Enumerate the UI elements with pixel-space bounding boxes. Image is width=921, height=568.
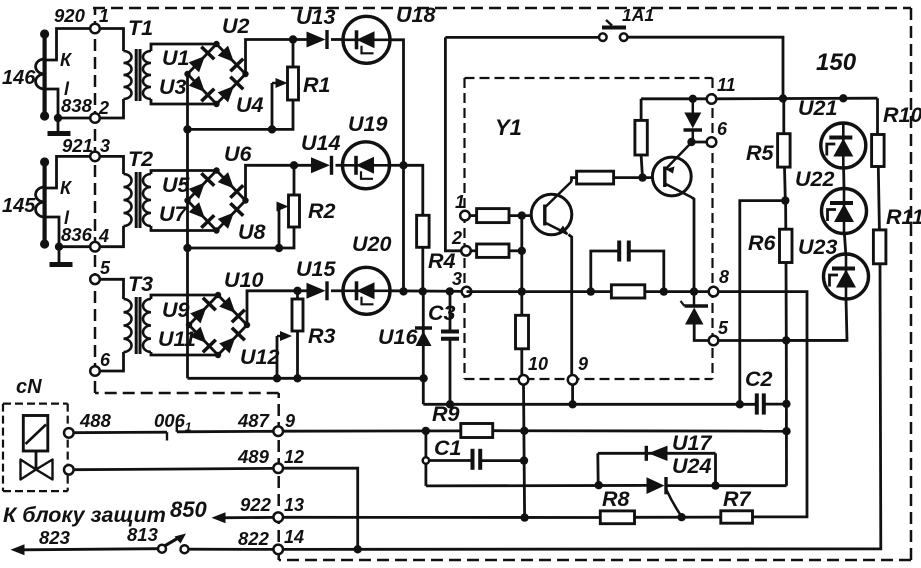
svg-text:R6: R6 xyxy=(748,231,777,255)
wire input resistor 2 right xyxy=(509,249,522,252)
label U20 xyxy=(352,232,391,256)
svg-text:145: 145 xyxy=(2,195,36,217)
label U14 xyxy=(301,131,340,155)
svg-text:6: 6 xyxy=(717,119,728,139)
label pin 3 xyxy=(100,136,110,156)
svg-text:C2: C2 xyxy=(745,367,773,391)
wire U18 output down xyxy=(390,40,404,166)
svg-text:488: 488 xyxy=(79,410,112,431)
label U17 xyxy=(672,431,712,455)
label pin 5 xyxy=(100,258,111,278)
label 822 xyxy=(238,528,270,549)
label U12 xyxy=(240,345,279,369)
coupling resistor xyxy=(577,171,614,184)
wire top-right rail xyxy=(716,97,878,100)
label 146 xyxy=(2,67,36,89)
label l (CT 146 tap) xyxy=(64,79,70,99)
solenoid coil (cN) xyxy=(23,416,48,452)
svg-text:6: 6 xyxy=(100,350,111,370)
svg-text:U18: U18 xyxy=(396,3,435,27)
label U11 xyxy=(158,327,196,351)
label 813 xyxy=(127,524,159,545)
diode U16 xyxy=(415,328,432,346)
wire R11 bottom to bus xyxy=(283,264,881,550)
transistor Q1 xyxy=(531,182,572,235)
label 489 xyxy=(237,446,270,467)
wire R8 to gate node xyxy=(635,516,721,519)
svg-text:К: К xyxy=(60,50,73,70)
wire terminal5 to T3 primary xyxy=(99,279,124,299)
svg-text:К: К xyxy=(60,178,73,198)
cN terminal lower xyxy=(64,465,74,475)
svg-text:5: 5 xyxy=(100,258,111,278)
Y1 pin 11 xyxy=(707,94,717,104)
svg-text:8: 8 xyxy=(719,267,729,287)
label 488 xyxy=(79,410,112,431)
label Y1 pin 6 xyxy=(717,119,728,139)
label 850 xyxy=(170,497,207,522)
wire T2 primary to terminal 4 xyxy=(99,226,124,247)
wire 488 segment xyxy=(73,431,167,434)
transformer T2 xyxy=(124,172,152,228)
wire bridge2 plus up xyxy=(246,165,295,200)
Y1 pin 1 xyxy=(460,211,470,221)
wire bias resistor to pin 10 xyxy=(520,349,523,377)
svg-text:489: 489 xyxy=(237,446,270,467)
thyristor U23 xyxy=(824,254,869,299)
label U10 xyxy=(224,268,263,292)
svg-text:U6: U6 xyxy=(224,142,253,166)
junction Q2 collector row xyxy=(690,287,698,295)
svg-text:4: 4 xyxy=(98,226,109,246)
svg-text:822: 822 xyxy=(238,528,270,549)
label T2 xyxy=(128,147,153,171)
wire Q1 collector to coupling resistor xyxy=(572,178,577,182)
junction R1 wiper bus xyxy=(268,125,276,133)
wire T3 secondary bottom to bridge3 bottom xyxy=(151,352,218,355)
diode bridge U1 U2 U3 U4 xyxy=(184,41,248,107)
svg-text:T1: T1 xyxy=(128,16,153,40)
opto-thyristor U18 xyxy=(343,16,390,63)
wire load resistor top xyxy=(640,99,643,121)
wire node to R4 xyxy=(404,165,423,215)
current transformer 146 xyxy=(36,29,50,120)
label Y1 pin 11 xyxy=(717,75,736,95)
R2 wiper arrow xyxy=(277,202,289,212)
svg-text:838: 838 xyxy=(61,95,93,116)
wire C1 right lead xyxy=(482,459,524,462)
arrow to protection block xyxy=(212,512,226,523)
svg-text:850: 850 xyxy=(170,497,207,522)
valve stem xyxy=(35,451,38,470)
capacitor C2 xyxy=(757,393,764,414)
wire Q2 collector down xyxy=(692,198,694,292)
wire common node line xyxy=(423,403,755,406)
wire C3 top lead xyxy=(449,291,452,331)
junction U21 top xyxy=(839,94,847,102)
wire T3 primary to terminal 6 xyxy=(99,352,124,371)
wire minus bus vertical xyxy=(186,74,189,378)
wire U19 output to node xyxy=(390,164,404,167)
wire pin1 to input resistor xyxy=(469,214,477,217)
label 920 xyxy=(54,5,86,26)
wire Q1 emitter down to pin 9 xyxy=(569,235,572,377)
label R2 xyxy=(308,199,336,223)
svg-text:R11: R11 xyxy=(886,205,921,229)
wire U15 to U20 xyxy=(331,289,343,292)
svg-text:T2: T2 xyxy=(128,147,153,171)
wire T1 primary to terminal 2 xyxy=(99,99,124,118)
svg-text:U7: U7 xyxy=(159,202,188,226)
terminal 2 xyxy=(90,113,100,123)
wire R1 bottom lead xyxy=(188,100,294,129)
wire U23 bottom to pin5 rail xyxy=(786,299,847,340)
wire U24 to rejoin xyxy=(665,484,787,487)
svg-text:U24: U24 xyxy=(672,454,711,478)
junction row1 row2 outputs xyxy=(399,161,407,169)
terminal 13 xyxy=(273,512,283,522)
R3 wiper arrow xyxy=(277,331,292,341)
label K (CT 146 tap) xyxy=(60,50,73,70)
wire to ground 1 xyxy=(57,118,60,131)
diode U17 xyxy=(646,446,667,461)
terminal 12 xyxy=(273,463,283,473)
wire U22 to U23 xyxy=(844,234,845,255)
transistor Q2 xyxy=(652,145,692,198)
wire terminal9 to R9 xyxy=(282,429,461,432)
Y1 pin 2 xyxy=(461,246,471,256)
junction R2 top xyxy=(290,161,298,169)
label Y1 xyxy=(495,115,522,140)
svg-text:U21: U21 xyxy=(798,96,837,120)
wire terminal3 to T2 primary xyxy=(99,156,124,174)
wire bridge1 plus up xyxy=(246,40,294,75)
wire divider vertical xyxy=(520,216,523,316)
junction U17 split left xyxy=(595,481,603,489)
svg-text:U20: U20 xyxy=(352,232,391,256)
svg-text:U11: U11 xyxy=(158,327,196,351)
transformer T1 xyxy=(124,49,152,101)
wire to diode U13 xyxy=(293,38,307,41)
junction R2 wiper bus xyxy=(275,244,283,252)
svg-text:2: 2 xyxy=(451,228,462,248)
label U4 xyxy=(236,93,264,117)
svg-text:9: 9 xyxy=(285,411,295,431)
wire U17 row xyxy=(598,452,716,455)
terminal 14 xyxy=(273,545,283,555)
junction U24 gate node xyxy=(677,513,685,521)
wire Y1 row3 internal xyxy=(467,290,711,293)
svg-text:3: 3 xyxy=(452,269,462,289)
wire input resistor to base node xyxy=(509,214,545,217)
wire 922 to protection xyxy=(216,516,274,519)
diode U15 xyxy=(307,281,328,300)
svg-text:R9: R9 xyxy=(432,402,460,426)
label 006-1 xyxy=(154,410,192,434)
wire R2 top lead xyxy=(293,165,296,195)
thyristor U21 xyxy=(821,123,866,168)
wire Y1 top rail xyxy=(641,97,707,100)
svg-text:T3: T3 xyxy=(128,272,153,296)
junction base node xyxy=(518,211,526,219)
junction R5 top xyxy=(779,94,787,102)
diode bridge U5 U6 U7 U8 xyxy=(184,167,248,233)
label terminal 12 xyxy=(284,447,304,467)
resistor R1 xyxy=(288,67,299,100)
label C3 xyxy=(428,301,456,325)
diode (pin8 to pin5) xyxy=(681,292,711,341)
junction C1 right xyxy=(520,456,528,464)
wire 487 segment xyxy=(177,430,274,433)
svg-text:Y1: Y1 xyxy=(495,115,522,140)
junction R1 top xyxy=(289,35,297,43)
disconnect contact 813 xyxy=(158,534,189,554)
label U8 xyxy=(238,220,266,244)
label Y1 pin 9 xyxy=(578,354,588,374)
svg-text:R10: R10 xyxy=(883,103,921,127)
wire U17 branch left xyxy=(596,453,599,485)
terminal 4 xyxy=(90,242,100,252)
junction C3 bottom xyxy=(446,400,454,408)
label Y1 pin 10 xyxy=(528,354,548,374)
terminal 1 xyxy=(90,24,100,34)
junction R3 top xyxy=(293,287,301,295)
wire 822 segment xyxy=(188,548,275,551)
Y1 pin 5 xyxy=(709,336,719,346)
label 838 xyxy=(61,95,93,116)
resistor R2 xyxy=(289,195,300,227)
svg-text:11: 11 xyxy=(717,75,736,95)
wire R5 top xyxy=(782,99,785,134)
wire CT146 upper tap to terminal 1 xyxy=(45,29,91,61)
junction node row3 xyxy=(399,287,407,295)
label U3 xyxy=(159,75,187,99)
label l (CT 145 tap) xyxy=(64,208,70,228)
svg-text:13: 13 xyxy=(284,495,304,515)
svg-text:921: 921 xyxy=(62,135,93,156)
wire R5 to R6 xyxy=(783,167,787,201)
wire R9 right rail xyxy=(493,429,787,432)
label R7 xyxy=(723,487,752,511)
wire U21 to U22 xyxy=(842,168,845,188)
junction divider row3 xyxy=(518,287,526,295)
wire terminal1 to T1 primary xyxy=(99,29,124,52)
junction R9 pin10 cross xyxy=(520,427,528,435)
svg-text:5: 5 xyxy=(718,318,729,338)
resistor R3 xyxy=(292,299,303,331)
label Y1 pin 1 xyxy=(455,192,465,212)
svg-text:C1: C1 xyxy=(434,436,461,460)
label pin 4 xyxy=(98,226,109,246)
capacitor C1 xyxy=(473,449,481,470)
svg-text:U3: U3 xyxy=(159,75,187,99)
junction minus bus row1 xyxy=(183,125,191,133)
C1 left connector xyxy=(423,457,429,463)
bias resistor (to pin10) xyxy=(516,315,529,349)
svg-text:1: 1 xyxy=(455,192,465,212)
label U13 xyxy=(296,5,335,29)
wire U20 to junctions xyxy=(390,289,467,292)
feedback capacitor xyxy=(619,241,629,262)
label Y1 pin 5 xyxy=(718,318,729,338)
svg-text:920: 920 xyxy=(54,5,86,26)
label R9 xyxy=(432,402,460,426)
label R5 xyxy=(746,141,775,165)
Y1 pin 3 xyxy=(462,287,472,297)
wire CT145 upper tap to terminal 3 xyxy=(45,156,91,188)
wire U14 to U19 xyxy=(336,164,343,167)
junction pin12 on bus xyxy=(354,545,362,553)
opto-thyristor U20 xyxy=(343,267,390,314)
label pin 1 xyxy=(99,6,109,26)
svg-text:C3: C3 xyxy=(428,301,456,325)
resistor R4 xyxy=(417,215,430,247)
resistor R10 xyxy=(872,135,885,167)
svg-text:922: 922 xyxy=(240,494,272,515)
thyristor U24 xyxy=(647,477,682,517)
label U5 xyxy=(162,173,191,197)
label U24 xyxy=(672,454,711,478)
resistor R11 xyxy=(873,230,886,264)
svg-text:150: 150 xyxy=(816,49,857,76)
label U7 xyxy=(159,202,188,226)
junction minus bus at U16 xyxy=(419,374,427,382)
svg-text:U19: U19 xyxy=(348,112,387,136)
wire minus bus row3 horizontal xyxy=(188,377,425,380)
ground 2 xyxy=(50,262,73,267)
label U9 xyxy=(162,298,190,322)
svg-text:R8: R8 xyxy=(602,487,630,511)
cN terminal upper xyxy=(64,428,74,438)
svg-text:U2: U2 xyxy=(222,14,250,38)
control unit Y1 (dashed box) xyxy=(465,78,713,379)
svg-text:U13: U13 xyxy=(296,5,335,29)
junction pin5 rail drop xyxy=(782,336,790,344)
svg-text:U8: U8 xyxy=(238,220,266,244)
label cN xyxy=(16,376,42,398)
terminal 9 (lower) xyxy=(273,426,283,436)
resistor R7 xyxy=(721,511,753,523)
wire R10 to R11 xyxy=(878,167,879,230)
junction C2 right xyxy=(782,400,790,408)
wire R4 bottom to row3 line xyxy=(421,247,424,291)
junction Q2 emitter node xyxy=(687,138,695,146)
resistor R8 xyxy=(600,511,634,524)
arrow 823 left xyxy=(11,544,25,555)
wire tap to R6 xyxy=(784,201,787,230)
valve unit cN (dashed box) xyxy=(3,404,68,492)
resistor R5 xyxy=(778,134,791,167)
terminal 3 xyxy=(90,152,100,162)
zener diode (Y1) xyxy=(684,99,703,142)
wire pin8 rail right xyxy=(718,292,808,517)
label R3 xyxy=(308,324,336,348)
svg-text:U4: U4 xyxy=(236,93,264,117)
Y1 pin 10 xyxy=(519,375,529,385)
label U15 xyxy=(296,257,336,281)
svg-text:2: 2 xyxy=(98,98,109,118)
wire right common vertical xyxy=(785,340,788,485)
svg-text:U15: U15 xyxy=(296,257,336,281)
capacitor C3 xyxy=(441,332,459,339)
thyristor U22 xyxy=(822,189,867,234)
junction C3 top xyxy=(446,287,454,295)
resistor R9 xyxy=(461,424,493,438)
wire R3 wiper to bus xyxy=(276,336,279,378)
wire R6 bottom down xyxy=(785,263,788,341)
ground 1 xyxy=(48,131,71,136)
wire R1 top lead xyxy=(292,40,295,68)
label Y1 pin 8 xyxy=(719,267,729,287)
label 487 xyxy=(237,410,271,431)
wire T1 secondary bottom to bridge1 bottom xyxy=(151,99,217,104)
wire pin10 drop xyxy=(524,384,525,518)
junction zener top xyxy=(689,95,697,103)
wire T3 secondary top to bridge3 top xyxy=(151,295,218,299)
wire terminal12 to bus xyxy=(282,468,358,549)
wire left node vertical xyxy=(424,431,427,486)
wire to diode U14 xyxy=(294,164,311,167)
junction pin13 pin10 xyxy=(520,513,528,521)
label Y1 pin 3 xyxy=(452,269,462,289)
Y1 pin 8 xyxy=(709,287,719,297)
junction CT146 ground tap xyxy=(54,114,62,122)
wire T2 secondary bottom to bridge2 bottom xyxy=(151,226,217,231)
junction R5 R6 tap xyxy=(781,196,789,204)
junction pin9 drop xyxy=(568,400,576,408)
wire R3 top lead xyxy=(296,291,299,299)
label R4 xyxy=(428,249,456,273)
wire pin5 rail right xyxy=(718,339,848,342)
wire C3 bottom lead xyxy=(449,339,452,404)
wire T2 secondary top to bridge2 top xyxy=(151,171,217,175)
label Y1 pin 2 xyxy=(451,228,462,248)
svg-text:1: 1 xyxy=(99,6,109,26)
wire 489 line xyxy=(73,468,274,469)
wire terminal13 line xyxy=(282,516,600,519)
label K (CT 145 tap) xyxy=(60,178,73,198)
wire tap to C2 drop xyxy=(740,201,786,405)
wire U16 vertical xyxy=(422,291,425,404)
label R1 xyxy=(303,73,330,97)
label pin 6 xyxy=(100,350,111,370)
wire C2 right lead xyxy=(766,403,787,406)
label U22 xyxy=(795,167,834,191)
switch 1A1 xyxy=(599,20,628,41)
label U6 xyxy=(224,142,253,166)
junction R9 left node xyxy=(422,427,430,435)
label K bloku zashchit xyxy=(3,503,166,527)
wire 1A1 to top right xyxy=(628,37,784,98)
Y1 pin 9 xyxy=(568,375,578,385)
label 921 xyxy=(62,135,93,156)
svg-text:R1: R1 xyxy=(303,73,330,97)
svg-text:R5: R5 xyxy=(746,141,775,165)
label U18 xyxy=(396,3,435,27)
svg-text:R3: R3 xyxy=(308,324,336,348)
svg-text:9: 9 xyxy=(578,354,588,374)
svg-text:1А1: 1А1 xyxy=(622,5,654,25)
label T3 xyxy=(128,272,153,296)
wire to diode U15 xyxy=(298,289,307,292)
wire R3 bottom lead xyxy=(296,331,299,378)
svg-text:U16: U16 xyxy=(378,325,418,349)
label 823 xyxy=(39,527,71,548)
svg-text:U14: U14 xyxy=(301,131,340,155)
label T1 xyxy=(128,16,153,40)
label terminal 9 xyxy=(285,411,295,431)
label 1A1 xyxy=(622,5,654,25)
